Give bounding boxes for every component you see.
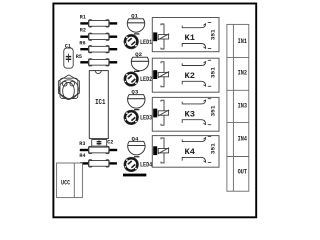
hex-mounted component (trimmer) [58,75,79,100]
LED LED1 [124,34,153,49]
jumper wire bar [123,174,146,177]
svg-text:IN2: IN2 [238,70,248,77]
relay K3 left contact bracket [161,100,164,125]
relay K3 top contact [182,100,206,104]
relay K1 bottom contact [182,44,206,49]
resistor R5 [76,54,117,66]
resistor R3 [79,141,117,154]
svg-text:351: 351 [209,29,216,41]
resistor R1 [80,15,117,28]
relay K3 box [152,97,219,131]
relay K2 polarity mark [153,70,157,79]
svg-text:R1: R1 [80,15,86,21]
relay K4 coil symbol [158,149,168,153]
connector UCC [57,163,83,198]
resistor R6 [79,40,117,52]
svg-text:K4: K4 [185,147,196,157]
relay K4 bottom contact [182,157,206,162]
svg-text:351: 351 [209,105,216,117]
resistor R2 [80,28,117,41]
svg-text:R4: R4 [79,153,86,159]
relay K2 left contact bracket [161,62,164,87]
relay K3 bottom contact [182,120,206,125]
svg-text:IN3: IN3 [238,102,248,109]
relay K1 left contact bracket [161,24,164,49]
resistor R4 [79,153,117,167]
relay K4 box [152,136,219,168]
capacitor C2 [92,140,114,147]
relay K4 polarity mark [153,146,157,155]
relay K2 bottom contact [182,81,206,86]
svg-text:LED1: LED1 [140,39,153,46]
svg-text:OUT: OUT [238,169,248,176]
relay K4 left contact bracket [161,138,164,163]
LED LED3 [124,110,153,125]
svg-text:IN4: IN4 [238,135,248,142]
svg-text:K1: K1 [185,33,196,43]
relay K2 top contact [182,61,206,65]
relay K1 coil symbol [158,35,168,39]
relay K3 coil symbol [158,111,168,115]
capacitor C1 [64,43,73,68]
transistor Q1 [127,13,144,32]
relay K2 box [152,58,219,92]
svg-text:R2: R2 [80,28,86,34]
IC U1 (IC1 DIP) [89,71,108,139]
board outline border [53,4,256,218]
transistor Q3 [128,89,145,108]
svg-text:LED3: LED3 [140,115,153,122]
svg-text:R5: R5 [76,54,82,60]
relay K1 top contact [182,23,206,27]
relay K1 polarity mark [153,32,157,41]
relay K2 coil symbol [158,72,168,76]
svg-text:LED2: LED2 [140,76,153,83]
svg-text:351: 351 [209,143,216,155]
LED LED2 [124,71,153,86]
relay K3 polarity mark [153,109,157,118]
LED LED4 [124,157,153,172]
relay K1 box [152,18,219,52]
connector block IN1-IN4/OUT [227,24,249,191]
svg-text:C2: C2 [107,140,113,146]
svg-text:IC1: IC1 [95,99,106,107]
transistor Q2 [131,51,148,70]
svg-text:R3: R3 [79,141,85,147]
svg-text:IN1: IN1 [238,38,248,45]
transistor Q4 [128,135,145,154]
relay K4 top contact [182,137,206,141]
svg-text:UCC: UCC [61,179,70,187]
svg-text:351: 351 [209,66,216,78]
svg-text:K2: K2 [185,71,196,81]
svg-text:R6: R6 [79,40,85,46]
svg-text:LED4: LED4 [140,162,153,169]
svg-text:K3: K3 [185,109,196,119]
